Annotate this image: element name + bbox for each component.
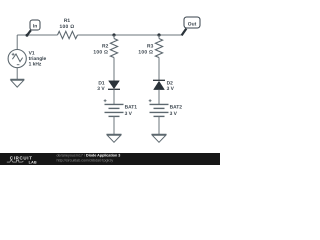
svg-text:1 kHz: 1 kHz [29, 62, 42, 68]
wire D2 to BAT2 [158, 90, 160, 105]
footer bar [0, 153, 220, 165]
ground (BAT1) [107, 134, 122, 142]
footer logo CIRCUIT LAB [7, 155, 37, 164]
svg-text:100 Ω: 100 Ω [138, 50, 153, 56]
svg-text:3 V: 3 V [125, 111, 133, 117]
diode D1 [97, 80, 120, 91]
svg-text:D1: D1 [98, 80, 105, 86]
ground (BAT2) [152, 134, 167, 142]
wire V1 bottom [16, 68, 18, 80]
svg-text:BAT1: BAT1 [125, 105, 138, 111]
svg-text:BAT2: BAT2 [170, 105, 183, 111]
svg-text:Out: Out [188, 21, 197, 27]
node Out flag [182, 17, 200, 35]
wire R3 to D2 [158, 58, 160, 81]
node In flag [26, 20, 41, 37]
wire V1 top riser [16, 35, 18, 50]
wire D1 to BAT1 [113, 89, 115, 104]
svg-text:LAB: LAB [29, 161, 37, 165]
node junction R2 top [112, 33, 115, 36]
svg-text:3 V: 3 V [167, 86, 175, 92]
svg-text:In: In [33, 24, 37, 30]
wire R2 to D1 [113, 58, 115, 81]
wire BAT1 to ground [113, 116, 115, 134]
svg-text:http://circuitlab.com/c6bda67p: http://circuitlab.com/c6bda67pgk3y [57, 158, 114, 162]
svg-text:100 Ω: 100 Ω [93, 50, 108, 56]
svg-text:100 Ω: 100 Ω [60, 24, 75, 30]
svg-text:3 V: 3 V [97, 86, 105, 92]
resistor R2 [93, 39, 117, 58]
wire BAT2 to ground [158, 116, 160, 134]
voltage source V1 [8, 50, 46, 68]
wire R2 top stub [113, 35, 115, 39]
svg-text:R3: R3 [147, 44, 154, 50]
battery BAT1 [104, 99, 138, 117]
diode D2 [153, 80, 175, 92]
resistor R1 [58, 18, 78, 39]
footer text [57, 153, 121, 162]
resistor R3 [138, 39, 162, 58]
wire top horizontal net In->Out [17, 34, 182, 36]
ground (V1) [10, 79, 24, 87]
svg-text:3 V: 3 V [170, 111, 178, 117]
wire R3 top stub [158, 35, 160, 39]
svg-text:deraneyousm17 / Diode Applicat: deraneyousm17 / Diode Application 3 [57, 153, 121, 157]
svg-text:D2: D2 [167, 81, 174, 87]
svg-text:V1: V1 [29, 51, 35, 57]
svg-text:R1: R1 [64, 18, 71, 24]
svg-text:triangle: triangle [29, 56, 47, 62]
node junction R3 top [157, 33, 160, 36]
svg-text:R2: R2 [102, 44, 109, 50]
battery BAT2 [149, 99, 183, 117]
